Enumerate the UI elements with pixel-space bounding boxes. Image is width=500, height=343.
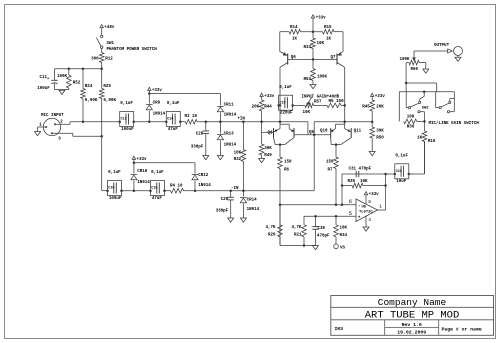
svg-text:300: 300	[91, 57, 99, 61]
svg-text:R24: R24	[85, 85, 93, 89]
svg-text:R53: R53	[303, 78, 311, 82]
svg-text:C28: C28	[196, 133, 204, 137]
svg-text:+33v: +33v	[369, 193, 380, 197]
svg-text:R5 150: R5 150	[329, 100, 345, 104]
svg-text:R20: R20	[268, 233, 276, 237]
svg-text:+IN: +IN	[237, 118, 245, 122]
svg-text:R6: R6	[284, 169, 290, 173]
svg-text:C10: C10	[108, 187, 114, 191]
svg-text:+48v: +48v	[104, 26, 115, 30]
svg-text:VS: VS	[340, 246, 346, 250]
svg-text:C15: C15	[151, 187, 157, 191]
svg-text:MIC INPUT: MIC INPUT	[41, 114, 64, 118]
svg-text:+33v: +33v	[137, 158, 148, 162]
svg-text:6,90K: 6,90K	[85, 99, 98, 103]
svg-text:10uF: 10uF	[396, 180, 407, 184]
svg-text:C11: C11	[40, 76, 48, 80]
svg-text:100K: 100K	[317, 75, 328, 79]
svg-text:C19: C19	[279, 101, 285, 105]
svg-text:0,1uF: 0,1uF	[395, 154, 408, 158]
svg-text:Q7: Q7	[330, 56, 336, 60]
svg-text:150: 150	[284, 161, 292, 165]
svg-text:R57: R57	[314, 100, 322, 104]
svg-text:R34: R34	[340, 234, 348, 238]
svg-text:R32: R32	[234, 158, 242, 162]
svg-text:4,7K: 4,7K	[265, 226, 276, 230]
svg-text:R4 10: R4 10	[170, 184, 183, 188]
svg-text:1N914: 1N914	[224, 114, 237, 118]
svg-text:C14: C14	[167, 118, 173, 122]
svg-text:150: 150	[326, 161, 334, 165]
svg-text:CR9: CR9	[153, 102, 161, 106]
svg-text:Q11: Q11	[354, 129, 362, 133]
svg-text:C13: C13	[121, 118, 127, 122]
svg-text:20K: 20K	[376, 105, 384, 109]
svg-text:6,90K: 6,90K	[103, 99, 116, 103]
svg-text:R12: R12	[105, 57, 113, 61]
svg-text:Page # or name: Page # or name	[442, 326, 482, 332]
svg-text:Q6: Q6	[291, 56, 297, 60]
svg-text:100uF: 100uF	[37, 87, 50, 91]
svg-text:1N914: 1N914	[137, 181, 150, 185]
svg-text:47uF: 47uF	[152, 197, 163, 201]
svg-text:Company Name: Company Name	[378, 297, 447, 308]
svg-text:47uF: 47uF	[168, 128, 179, 132]
svg-text:10K: 10K	[360, 180, 368, 184]
svg-text:0,1uF: 0,1uF	[120, 102, 133, 106]
svg-text:-: -	[358, 204, 361, 209]
svg-text:6: 6	[349, 199, 352, 205]
svg-text:10K: 10K	[317, 42, 325, 46]
svg-text:SW1: SW1	[107, 42, 115, 46]
svg-text:R45: R45	[362, 105, 370, 109]
svg-text:R21: R21	[294, 233, 302, 237]
svg-text:100K: 100K	[400, 58, 411, 62]
svg-text:CR13: CR13	[224, 133, 235, 137]
svg-text:R50: R50	[411, 68, 419, 72]
svg-text:ART TUBE MP MOD: ART TUBE MP MOD	[365, 309, 460, 321]
svg-text:INPUT GAIN+40dB: INPUT GAIN+40dB	[302, 95, 340, 100]
svg-text:1N914: 1N914	[224, 144, 237, 148]
svg-text:C31 470pF: C31 470pF	[349, 168, 372, 172]
svg-text:1K: 1K	[326, 37, 332, 41]
svg-text:8: 8	[368, 199, 371, 205]
svg-text:39K: 39K	[376, 129, 384, 133]
svg-text:1N914: 1N914	[198, 184, 211, 188]
svg-text:4: 4	[368, 217, 371, 223]
svg-text:OUTPUT: OUTPUT	[434, 44, 450, 48]
svg-text:R16: R16	[428, 140, 436, 144]
svg-text:1N914: 1N914	[247, 208, 260, 212]
svg-text:TL072C: TL072C	[359, 210, 373, 214]
svg-text:C29: C29	[221, 198, 229, 202]
svg-text:R14: R14	[290, 26, 298, 30]
svg-text:U5: U5	[362, 206, 367, 210]
svg-text:470pF: 470pF	[317, 234, 330, 238]
svg-text:R50: R50	[376, 136, 384, 140]
svg-text:-IN: -IN	[231, 187, 239, 191]
svg-text:220uF: 220uF	[280, 112, 293, 116]
svg-text:Rev 1.0: Rev 1.0	[402, 322, 422, 328]
svg-text:R35: R35	[348, 180, 356, 184]
svg-text:0,1uF: 0,1uF	[167, 102, 180, 106]
svg-text:0,1uF: 0,1uF	[108, 171, 121, 175]
svg-text:1K: 1K	[417, 136, 423, 140]
svg-text:1N914: 1N914	[153, 112, 166, 116]
svg-text:R52: R52	[73, 81, 81, 85]
svg-text:1K: 1K	[292, 37, 298, 41]
svg-text:CR12: CR12	[198, 174, 209, 178]
svg-text:100uF: 100uF	[121, 128, 134, 132]
svg-text:100K: 100K	[57, 75, 68, 79]
svg-text:10K: 10K	[234, 152, 242, 156]
svg-text:10K: 10K	[303, 111, 311, 115]
svg-text:SW2: SW2	[422, 107, 430, 111]
svg-text:0,1uF: 0,1uF	[279, 86, 292, 90]
svg-text:R7: R7	[327, 169, 333, 173]
svg-text:100uF: 100uF	[109, 197, 122, 201]
svg-text:MIC/LINE GAIN SWITCH: MIC/LINE GAIN SWITCH	[429, 121, 480, 126]
svg-text:1: 1	[379, 204, 382, 210]
svg-text:+: +	[47, 78, 49, 82]
svg-text:+33v: +33v	[375, 95, 386, 99]
svg-text:R36: R36	[407, 126, 415, 130]
svg-text:R44: R44	[264, 105, 272, 109]
svg-text:R15: R15	[324, 26, 332, 30]
svg-text:CR11: CR11	[224, 104, 235, 108]
svg-text:R49: R49	[264, 154, 272, 158]
svg-text:Q10: Q10	[320, 129, 328, 133]
svg-text:CR14: CR14	[247, 198, 258, 202]
svg-text:+33v: +33v	[316, 16, 327, 20]
svg-text:330pF: 330pF	[216, 209, 229, 213]
svg-text:IKS: IKS	[335, 326, 344, 332]
svg-text:0,1uF: 0,1uF	[151, 171, 164, 175]
svg-text:CR10: CR10	[137, 170, 148, 174]
svg-text:C23: C23	[396, 170, 402, 174]
svg-text:R33: R33	[303, 46, 311, 50]
svg-text:19.02.2009: 19.02.2009	[397, 330, 426, 336]
svg-text:39K: 39K	[264, 147, 272, 151]
svg-text:20K: 20K	[252, 105, 260, 109]
svg-text:R3 10: R3 10	[185, 115, 198, 119]
svg-text:C30: C30	[318, 227, 326, 231]
svg-text:PHANTOM POWER SWITCH: PHANTOM POWER SWITCH	[107, 48, 158, 52]
svg-text:10K: 10K	[340, 227, 348, 231]
svg-text:R25: R25	[103, 85, 111, 89]
svg-text:+33v: +33v	[152, 89, 163, 93]
svg-text:330pF: 330pF	[191, 146, 204, 150]
svg-text:+33v: +33v	[264, 95, 275, 99]
svg-text:10K: 10K	[407, 115, 415, 119]
svg-text:5: 5	[349, 211, 352, 217]
svg-text:4,7K: 4,7K	[291, 226, 302, 230]
svg-text:+: +	[358, 215, 361, 220]
